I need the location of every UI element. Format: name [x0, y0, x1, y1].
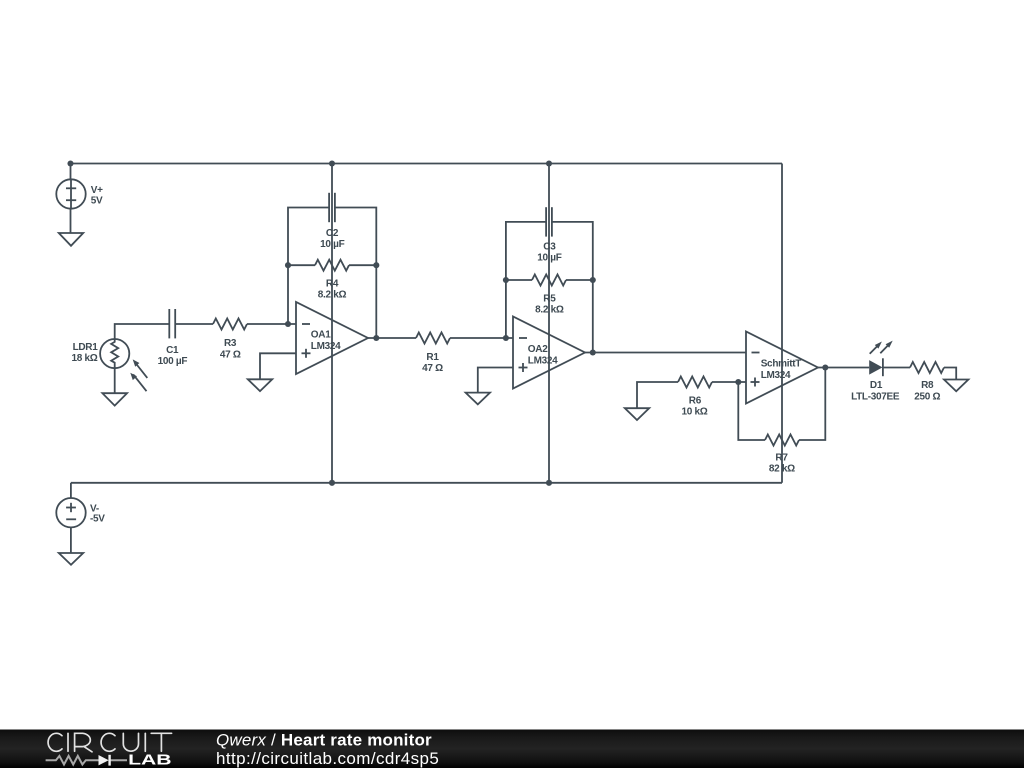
svg-text:LM324: LM324 [761, 370, 791, 381]
LED D1 [882, 358, 884, 376]
resistor R7 [765, 435, 799, 446]
node SchmittT plus input [735, 379, 741, 385]
wire R7 right branch [799, 368, 825, 441]
ground below LDR1 [102, 393, 127, 405]
resistor R8 [910, 362, 944, 373]
svg-text:47 Ω: 47 Ω [220, 350, 241, 361]
ground below R6 [625, 408, 649, 420]
node R4 right [373, 262, 379, 268]
capacitor C3 [545, 207, 547, 236]
wire OA2 output to SchmittT [585, 352, 746, 354]
photoresistor LDR1 [100, 339, 129, 368]
wire R3 to OA1 inverting input [247, 323, 296, 325]
svg-text:SchmittT: SchmittT [761, 359, 802, 370]
wire SchmittT output to D1 [818, 367, 869, 369]
wire V+ source vertical [70, 164, 72, 234]
CircuitLab logo diode [99, 755, 109, 765]
node OA1 output [373, 335, 379, 341]
capacitor C1 [168, 309, 170, 338]
wire bottom rail V- [71, 482, 782, 484]
svg-text:C1: C1 [166, 345, 179, 356]
wire R6 left to ground [637, 382, 678, 408]
ground below V- [59, 553, 83, 565]
svg-text:C3: C3 [543, 241, 556, 252]
svg-text:http://circuitlab.com/cdr4sp5: http://circuitlab.com/cdr4sp5 [216, 749, 439, 768]
wire R5 row right [566, 279, 593, 281]
svg-text:V+: V+ [91, 185, 103, 196]
resistor R4 [315, 260, 349, 271]
svg-text:R6: R6 [689, 395, 702, 406]
wire V- source bottom stub [70, 527, 72, 553]
LED D1 body [869, 360, 882, 375]
svg-text:LAB: LAB [128, 753, 172, 768]
svg-text:OA1: OA1 [311, 330, 331, 341]
ground below OA1 plus input [248, 379, 272, 391]
svg-text:R8: R8 [921, 380, 934, 391]
svg-text:R7: R7 [775, 452, 788, 463]
node top rail OA1 [329, 160, 335, 166]
svg-text:LM324: LM324 [528, 356, 558, 367]
node bottom rail OA2 [546, 480, 552, 486]
voltage source V+ [56, 179, 85, 208]
node OA1 inverting input [285, 321, 291, 327]
wire R1 to OA2 [450, 337, 513, 339]
wire R7 left branch [738, 382, 765, 440]
wire OA1 noninverting stub [260, 353, 296, 379]
svg-text:LTL-307EE: LTL-307EE [851, 391, 900, 402]
svg-text:18 kΩ: 18 kΩ [72, 353, 98, 364]
wire OA1 power vertical [331, 164, 333, 483]
wire R4 row left [288, 264, 315, 266]
node R5 right [590, 277, 596, 283]
wire feedback left rail to C2 [288, 208, 329, 325]
svg-text:10 kΩ: 10 kΩ [682, 407, 708, 418]
svg-text:47 Ω: 47 Ω [422, 363, 443, 374]
node R5 left [503, 277, 509, 283]
voltage source V- [56, 498, 85, 527]
ground below OA2 plus input [466, 393, 490, 405]
svg-text:82 kΩ: 82 kΩ [769, 464, 795, 475]
resistor R5 [532, 275, 566, 286]
svg-text:100 µF: 100 µF [158, 356, 188, 367]
wire V- source top stub [70, 483, 72, 498]
svg-text:LM324: LM324 [311, 341, 341, 352]
svg-text:C2: C2 [326, 228, 339, 239]
wire R6 right to SchmittT plus [712, 381, 746, 383]
op-amp OA2 [513, 317, 585, 389]
wire OA2 power vertical [548, 164, 550, 483]
svg-text:R4: R4 [326, 279, 339, 290]
svg-text:R3: R3 [224, 338, 237, 349]
wire R5 row left [506, 279, 532, 281]
svg-text:R5: R5 [543, 293, 556, 304]
wire LDR1 top to C1 [115, 324, 170, 339]
CircuitLab logo CIRCUIT [48, 733, 172, 752]
svg-text:-5V: -5V [90, 514, 105, 525]
op-amp OA1 [296, 302, 368, 374]
node top rail V+ [67, 160, 73, 166]
wire OA2 noninverting stub [478, 368, 513, 393]
footer bar [0, 730, 1024, 768]
svg-text:8.2 kΩ: 8.2 kΩ [318, 289, 347, 300]
comparator SchmittT [746, 332, 818, 404]
svg-text:5V: 5V [91, 195, 103, 206]
wire C3 to feedback2 right rail [552, 222, 593, 353]
node OA2 inverting input [503, 335, 509, 341]
wire SchmittT power vertical [781, 164, 783, 483]
node top rail OA2 [546, 160, 552, 166]
node SchmittT output [822, 364, 828, 370]
node bottom rail OA1 [329, 480, 335, 486]
node OA2 output [590, 349, 596, 355]
LED D1 emission arrowheads [875, 342, 882, 349]
ground below V+ [59, 233, 83, 246]
wire C2 to feedback right rail [335, 208, 376, 339]
resistor R3 [213, 319, 247, 330]
LDR1 light arrowheads [133, 359, 140, 366]
ground right of R8 [944, 380, 968, 392]
wire top rail V+ [71, 163, 783, 165]
svg-text:R1: R1 [426, 352, 439, 363]
wire C1 to R3 [175, 323, 213, 325]
svg-text:D1: D1 [870, 380, 883, 391]
wire R4 row right [349, 264, 376, 266]
CircuitLab logo squiggle [46, 756, 127, 765]
resistor R1 [416, 333, 450, 344]
wire D1 to R8 [883, 367, 910, 369]
wire R8 to ground [944, 368, 956, 380]
wire feedback2 left rail to C3 [506, 222, 546, 338]
svg-text:LDR1: LDR1 [73, 342, 99, 353]
svg-text:10 µF: 10 µF [537, 253, 561, 264]
capacitor C2 [328, 193, 330, 222]
svg-text:Qwerx / Heart rate monitor: Qwerx / Heart rate monitor [216, 731, 432, 750]
svg-text:250 Ω: 250 Ω [914, 391, 940, 402]
resistor R6 [678, 377, 712, 388]
svg-text:OA2: OA2 [528, 344, 548, 355]
node R4 left [285, 262, 291, 268]
svg-text:10 µF: 10 µF [320, 239, 344, 250]
wire OA1 output [368, 337, 416, 339]
svg-text:8.2 kΩ: 8.2 kΩ [535, 305, 564, 316]
